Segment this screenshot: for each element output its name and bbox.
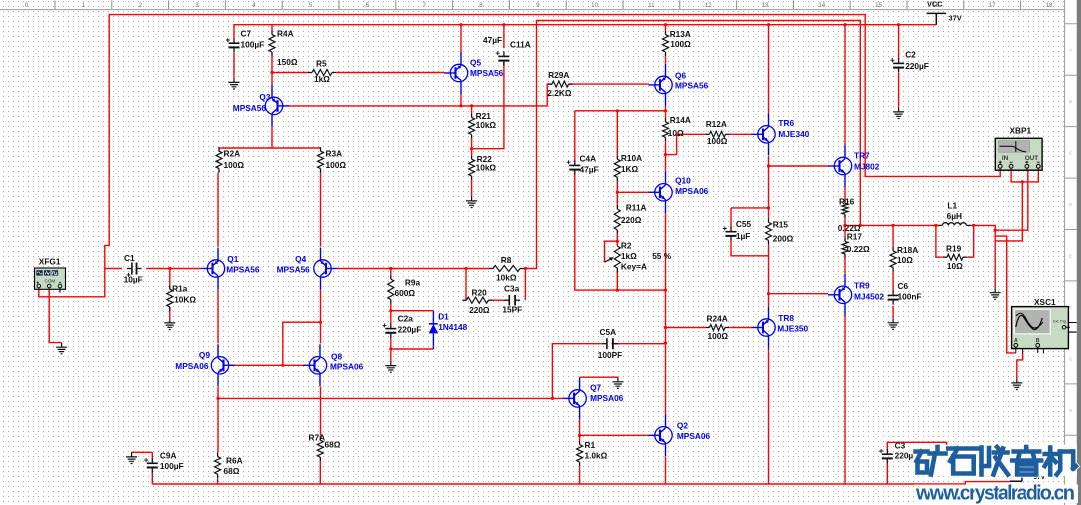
- junction C3a node: [524, 267, 527, 270]
- wire L1 right to corner to XSC1 A+: [971, 225, 1016, 353]
- svg-text:TR7: TR7: [854, 151, 870, 161]
- svg-text:100Ω: 100Ω: [670, 39, 691, 49]
- svg-text:C3a: C3a: [504, 284, 520, 294]
- svg-text:R29A: R29A: [548, 70, 569, 80]
- ground R22 ground: [466, 196, 477, 207]
- wire Q9 base to Q8 base: [233, 364, 305, 366]
- svg-text:10kΩ: 10kΩ: [476, 120, 497, 130]
- svg-text:MPSA06: MPSA06: [677, 431, 711, 441]
- wire node to TR8 collector: [768, 294, 770, 307]
- wire rail to R21 top: [471, 106, 473, 114]
- wire R2A bottom to Q1 emitter: [217, 173, 219, 247]
- junction VCC R13A: [664, 23, 667, 26]
- svg-text:B: B: [1069, 99, 1072, 104]
- svg-text:47µF: 47µF: [483, 35, 502, 45]
- ground R1a ground: [164, 318, 175, 329]
- resistor R3A: [320, 147, 322, 151]
- capacitor C4A 47uF: [569, 164, 580, 166]
- transistor Q4: [314, 248, 338, 290]
- svg-text:100µF: 100µF: [241, 40, 265, 50]
- junction TR7 base node: [767, 164, 770, 167]
- wire node to TR9 base: [769, 293, 829, 295]
- wire R7A bottom to neg rail: [319, 461, 321, 484]
- wire down to C4A top: [574, 111, 576, 161]
- transistor Q8: [303, 344, 327, 386]
- junction VCC C11A: [502, 23, 505, 26]
- svg-text:C5A: C5A: [600, 327, 617, 337]
- junction output R18A: [892, 224, 895, 227]
- svg-text:2.2KΩ: 2.2KΩ: [547, 88, 572, 98]
- wire C3 top over to VEE line: [887, 442, 946, 475]
- resistor R1a: [169, 285, 171, 289]
- svg-text:R9a: R9a: [405, 278, 421, 288]
- wire R22 bottom to ground: [471, 180, 473, 196]
- wire R1a bottom to ground: [169, 307, 171, 318]
- junction mirror base node: [281, 364, 284, 367]
- transistor TR6: [752, 113, 776, 155]
- transistor Q1: [201, 248, 225, 290]
- wire R13A bottom to Q6 collector: [665, 56, 667, 64]
- svg-text:10Ω: 10Ω: [897, 255, 913, 265]
- junction output corner node: [994, 229, 997, 232]
- resistor R16: [844, 199, 846, 203]
- svg-text:TR6: TR6: [778, 118, 794, 128]
- svg-text:H: H: [1069, 408, 1072, 413]
- svg-text:R2: R2: [621, 241, 632, 251]
- wire Q7 base node up to C5A left: [552, 344, 601, 399]
- svg-text:C55: C55: [736, 219, 752, 229]
- resistor R19: [943, 256, 947, 258]
- wire node line to C4A/R10A: [575, 110, 666, 112]
- junction output feedback tap: [859, 224, 862, 227]
- wire node to Q10 base: [617, 191, 649, 193]
- capacitor C5A 100PF: [606, 338, 608, 349]
- wire R2 bottom down: [616, 272, 618, 290]
- svg-text:1kΩ: 1kΩ: [314, 74, 330, 84]
- junction Q10 base node: [616, 191, 619, 194]
- svg-text:2: 2: [138, 2, 142, 9]
- capacitor C6 100nF: [888, 294, 899, 296]
- svg-text:C2: C2: [905, 50, 916, 60]
- svg-text:Q2: Q2: [677, 421, 688, 431]
- svg-text:C3: C3: [895, 441, 906, 451]
- svg-text:Q1: Q1: [227, 254, 238, 264]
- svg-text:100Ω: 100Ω: [707, 136, 728, 146]
- wire node to R9a top: [390, 269, 392, 276]
- instrument XBP1 bode plotter: [995, 138, 1042, 171]
- svg-text:37V: 37V: [949, 14, 962, 23]
- transistor Q7: [563, 377, 587, 419]
- junction Q7e node: [578, 434, 581, 437]
- resistor R14A: [665, 118, 667, 122]
- instrument XSC1 oscilloscope: [1012, 307, 1077, 354]
- wire XSC1 A- to ground: [1017, 353, 1023, 378]
- svg-text:Ext Trig: Ext Trig: [1053, 320, 1066, 324]
- junction C1/R1a node: [168, 267, 171, 270]
- wire Q7 emitter to node: [579, 419, 581, 435]
- svg-text:100Ω: 100Ω: [326, 160, 347, 170]
- svg-text:Q9: Q9: [199, 350, 210, 360]
- svg-text:Q7: Q7: [590, 383, 601, 393]
- svg-text:220Ω: 220Ω: [469, 305, 490, 315]
- svg-text:17: 17: [989, 2, 996, 9]
- wire R21 bottom to node to R22 top: [471, 139, 473, 156]
- junction R11A/R2 node: [616, 240, 619, 243]
- svg-text:10kΩ: 10kΩ: [476, 163, 497, 173]
- junction C2a/D1 node: [389, 347, 392, 350]
- junction R9a/D1/C2a node: [389, 309, 392, 312]
- svg-text:Q4: Q4: [295, 254, 306, 264]
- resistor R29A: [548, 83, 552, 85]
- svg-text:R4A: R4A: [277, 29, 294, 39]
- svg-text:100µF: 100µF: [160, 461, 184, 471]
- wire node to XBP1 OUT+: [995, 171, 1028, 230]
- junction VCC C2: [897, 23, 900, 26]
- junction output L1/R19: [934, 224, 937, 227]
- svg-text:IN: IN: [1002, 155, 1009, 162]
- svg-text:MJ4502: MJ4502: [854, 292, 884, 302]
- svg-text:200Ω: 200Ω: [773, 234, 794, 244]
- svg-text:R15: R15: [773, 220, 789, 230]
- svg-text:R12A: R12A: [706, 119, 727, 129]
- wire R18A bottom to C6 top: [892, 272, 894, 292]
- wire column to R24A left: [666, 327, 706, 329]
- ground XBP1 ground: [990, 288, 1001, 299]
- svg-text:12: 12: [705, 2, 712, 9]
- resistor R22: [471, 155, 473, 159]
- transistor Q10: [649, 171, 673, 213]
- watermark crystalradio logo: [914, 445, 1078, 476]
- svg-text:Q5: Q5: [470, 58, 481, 68]
- wire R19 right up to line: [967, 225, 974, 257]
- ground C7 ground: [229, 78, 240, 89]
- wire TR9 bottom to neg rail: [844, 316, 846, 485]
- svg-text:TR8: TR8: [778, 313, 794, 323]
- wire node to Q2 base: [580, 434, 649, 436]
- wire node to D1 top: [391, 310, 434, 312]
- svg-text:TR9: TR9: [854, 281, 870, 291]
- wire XBP1 IN- OUT- tie: [1011, 171, 1038, 182]
- right ruler: [1065, 0, 1077, 505]
- junction VCC TR7: [843, 23, 846, 26]
- instrument XFG1 function generator: [35, 268, 66, 289]
- resistor R17: [844, 237, 846, 241]
- wire Q2 emitter to neg rail: [665, 457, 667, 485]
- junction Q7 base node: [551, 397, 554, 400]
- wire R20 right to C3a left: [492, 299, 504, 301]
- svg-text:R6A: R6A: [226, 456, 243, 466]
- ground XFG1 COM ground: [56, 343, 67, 354]
- svg-text:10KΩ: 10KΩ: [174, 295, 196, 305]
- svg-text:100PF: 100PF: [598, 350, 622, 360]
- wire negative rail to VEE: [152, 482, 1009, 484]
- wire Q4 collector to Q8 collector: [320, 290, 322, 344]
- resistor R1: [579, 441, 581, 445]
- resistor R5: [308, 72, 312, 74]
- svg-text:C1: C1: [124, 253, 135, 263]
- wire VCC to TR6 collector: [768, 25, 770, 114]
- wire Q10 emitter down column to Q2 collector: [665, 213, 667, 414]
- svg-text:D1: D1: [438, 312, 449, 322]
- wire VCC to R13A top: [665, 25, 667, 31]
- wire C55 bottom link to R15 bottom: [731, 241, 769, 256]
- svg-text:1KΩ: 1KΩ: [621, 164, 639, 174]
- ground C6 ground: [888, 318, 899, 329]
- junction VCC Q5: [459, 23, 462, 26]
- svg-text:R13A: R13A: [670, 29, 691, 39]
- svg-text:R18A: R18A: [897, 245, 918, 255]
- svg-text:R2A: R2A: [224, 149, 241, 159]
- capacitor C7 100uF: [229, 42, 240, 44]
- junction C5A node: [664, 341, 667, 344]
- svg-text:1.0kΩ: 1.0kΩ: [585, 451, 608, 461]
- wire Q7 collector to ground: [580, 376, 618, 378]
- svg-text:C6: C6: [898, 281, 909, 291]
- wire VCC to C11A top: [503, 25, 505, 49]
- junction R2 bottom node: [616, 289, 619, 292]
- junction L1/R19 right: [972, 224, 975, 227]
- wire Q8 emitter to R7A: [320, 387, 322, 436]
- capacitor C11A 47uF: [498, 55, 509, 57]
- transistor Q6: [649, 64, 673, 106]
- svg-text:MPSA06: MPSA06: [330, 362, 364, 372]
- resistor R15: [768, 218, 770, 222]
- wire output down to R19 left: [936, 225, 943, 257]
- diode D1 1N4148: [429, 311, 439, 349]
- junction R4A/R5 node: [270, 71, 273, 74]
- svg-text:COM: COM: [45, 278, 56, 283]
- svg-text:150Ω: 150Ω: [277, 57, 298, 67]
- power VEE -37V: [1010, 475, 1022, 481]
- wire C4A bottom to bias node line: [575, 174, 666, 290]
- svg-text:Q3: Q3: [259, 92, 270, 102]
- svg-text:R17: R17: [847, 232, 863, 242]
- wire node to C55 top: [731, 207, 769, 209]
- capacitor C55 1uF: [726, 231, 737, 233]
- wire node down to R20 left: [465, 269, 467, 301]
- svg-text:L1: L1: [947, 201, 957, 211]
- wire C2a bottom to node: [390, 337, 392, 349]
- capacitor C3 220uF: [882, 453, 893, 455]
- svg-text:C4A: C4A: [580, 154, 597, 164]
- svg-text:Key=A: Key=A: [621, 262, 647, 272]
- svg-text:R1: R1: [585, 440, 596, 450]
- svg-text:R8: R8: [501, 255, 512, 265]
- wire VCC to Q5 top: [460, 25, 462, 52]
- svg-text:55 %: 55 %: [652, 251, 672, 261]
- wire C1 right to Q1 base: [146, 268, 201, 270]
- wire node to R10A top: [616, 111, 618, 155]
- svg-text:Q6: Q6: [675, 71, 686, 81]
- svg-text:100Ω: 100Ω: [224, 160, 245, 170]
- capacitor C2 220uF: [893, 62, 904, 64]
- transistor TR8: [752, 307, 776, 349]
- junction R21/R22 node: [470, 147, 473, 150]
- resistor R10A: [616, 155, 618, 159]
- wire R24A right to TR8 base: [729, 327, 752, 329]
- junction Q4/Q8 tie node: [319, 321, 322, 324]
- wire R3A bottom to Q4 emitter: [320, 173, 322, 247]
- svg-text:11: 11: [648, 2, 655, 9]
- svg-text:VCC: VCC: [927, 0, 943, 9]
- wire C7 bottom to ground: [233, 53, 235, 78]
- wire XFG1 COM to ground: [49, 288, 61, 342]
- svg-text:MPSA56: MPSA56: [233, 103, 267, 113]
- svg-text:0: 0: [25, 2, 29, 9]
- ground XSC1 A- ground: [1011, 378, 1022, 389]
- wire node down to ground: [994, 236, 996, 288]
- wire output to R18A top: [892, 225, 894, 246]
- wire R5 right to Q5 base: [336, 72, 444, 74]
- svg-text:G: G: [1069, 356, 1073, 361]
- svg-text:MJE340: MJE340: [778, 129, 809, 139]
- svg-text:10Ω: 10Ω: [947, 261, 963, 271]
- svg-text:0.22Ω: 0.22Ω: [847, 244, 870, 254]
- ground C2 ground: [893, 107, 904, 118]
- wire tail rail R2A-R3A: [219, 147, 321, 149]
- wire R11A bottom to R2 top: [616, 234, 618, 246]
- wire C9A bottom to neg rail: [151, 472, 153, 484]
- resistor R2A: [218, 147, 220, 151]
- svg-text:R24A: R24A: [707, 314, 728, 324]
- wire C3a right up to node: [524, 269, 526, 301]
- wire Q5 emitter down to rail: [460, 94, 462, 106]
- junction XBP1 gnd node: [1021, 180, 1024, 183]
- resistor R11A: [616, 205, 618, 209]
- svg-text:MPSA56: MPSA56: [470, 68, 504, 78]
- resistor R6A: [217, 453, 219, 457]
- junction rail R21: [470, 104, 473, 107]
- wire node to R5 left: [272, 72, 308, 74]
- svg-text:R7A: R7A: [309, 433, 326, 443]
- svg-text:MPSA06: MPSA06: [175, 361, 209, 371]
- svg-text:8: 8: [479, 2, 483, 9]
- wire R10A bottom to node to R11A top: [616, 181, 618, 205]
- wire node to R1 top: [579, 435, 581, 440]
- svg-text:220µF: 220µF: [905, 61, 929, 71]
- wire R14A bottom to node to Q10 collector: [665, 141, 667, 171]
- wire node to D1 bottom: [391, 348, 434, 350]
- svg-text:C11A: C11A: [510, 40, 531, 50]
- svg-text:XFG1: XFG1: [39, 257, 61, 267]
- wire R15 bottom to TR8 collector node: [768, 244, 770, 293]
- junction bias column node: [664, 289, 667, 292]
- svg-text:15PF: 15PF: [502, 305, 522, 315]
- resistor R9a: [390, 275, 392, 279]
- svg-text:18: 18: [1046, 2, 1053, 9]
- capacitor C9A 100uF: [147, 462, 158, 464]
- wire C3 bottom to neg rail: [886, 463, 888, 484]
- resistor R21: [471, 114, 473, 118]
- wire TR7 emitter to R16: [844, 187, 846, 199]
- inductor L1 6uH: [942, 223, 966, 226]
- wire output node line: [845, 224, 938, 226]
- svg-text:1: 1: [82, 2, 86, 9]
- wire rail to Q7 base: [218, 397, 563, 399]
- capacitor C2a 220uF: [385, 328, 396, 330]
- svg-text:XBP1: XBP1: [1010, 126, 1032, 136]
- ground Q7 ground: [612, 377, 623, 388]
- svg-text:47µF: 47µF: [580, 164, 599, 174]
- svg-text:9: 9: [536, 2, 540, 9]
- wire Q3 base rail to R29A: [289, 84, 552, 106]
- wire XBP1 grounds down: [995, 182, 1022, 241]
- resistor R13A: [665, 31, 667, 35]
- svg-text:15: 15: [875, 2, 882, 9]
- svg-text:R1a: R1a: [172, 284, 188, 294]
- svg-text:600Ω: 600Ω: [395, 288, 416, 298]
- svg-text:R14A: R14A: [670, 115, 691, 125]
- svg-text:C7: C7: [241, 29, 252, 39]
- svg-text:68Ω: 68Ω: [325, 440, 341, 450]
- resistor R4A: [271, 31, 273, 35]
- top ruler: [0, 1, 1065, 10]
- wire XFG1 minus stub: [59, 288, 61, 292]
- wire node to R12A left: [666, 134, 706, 154]
- transistor TR7: [828, 145, 852, 187]
- junction R14A/R12A node: [664, 153, 667, 156]
- svg-text:6: 6: [366, 2, 370, 9]
- capacitor C3a 15PF: [508, 295, 510, 306]
- svg-text:MPSA06: MPSA06: [675, 186, 709, 196]
- svg-text:6µH: 6µH: [947, 211, 962, 221]
- svg-text:220Ω: 220Ω: [621, 215, 642, 225]
- svg-text:14: 14: [818, 2, 825, 9]
- wire input signal XFG1 to border loop to XBP1 IN+: [39, 15, 1000, 297]
- junction output R16/R17: [843, 224, 846, 227]
- wire VCC to TR7 collector: [844, 25, 846, 145]
- resistor R24A: [706, 327, 710, 329]
- wire Q1 collector to Q9 collector: [217, 290, 219, 344]
- junction VCC TR6: [767, 23, 770, 26]
- wire R6A bottom to neg rail: [217, 478, 219, 484]
- transistor Q3: [265, 85, 289, 127]
- wire node to TR7 base: [769, 165, 829, 167]
- svg-text:68Ω: 68Ω: [224, 466, 240, 476]
- wire R16 bottom to node to R17 top: [844, 218, 846, 237]
- wire ground to C9A top: [132, 451, 153, 453]
- svg-text:MPSA06: MPSA06: [590, 393, 624, 403]
- svg-text:MPSA56: MPSA56: [277, 265, 311, 275]
- svg-text:1N4148: 1N4148: [438, 322, 467, 332]
- transistor Q2: [649, 414, 673, 456]
- potentiometer R2 1k Key=A: [614, 246, 620, 268]
- wire R2 wiper tie: [605, 241, 618, 262]
- transistor TR9: [828, 274, 852, 316]
- ground C2a ground: [385, 361, 396, 372]
- wire Q4 base line to R8: [338, 268, 490, 270]
- svg-text:10µF: 10µF: [124, 275, 143, 285]
- junction rail Q5e: [459, 104, 462, 107]
- wire C9A top lead: [151, 452, 153, 458]
- wire TR6 emitter down to R15: [768, 156, 770, 219]
- wire node to C2a top: [390, 311, 392, 324]
- resistor R12A: [706, 133, 710, 135]
- svg-text:1µF: 1µF: [736, 231, 750, 241]
- wire down to C55: [730, 208, 732, 228]
- wire Q6 emitter to node to R14A: [665, 106, 667, 118]
- svg-text:4: 4: [252, 2, 256, 9]
- wire C2 bottom to ground: [898, 73, 900, 107]
- resistor R20: [462, 299, 466, 301]
- wire R29A right to Q6 base: [569, 83, 649, 85]
- svg-text:www.crystalradio.cn: www.crystalradio.cn: [915, 483, 1075, 505]
- wire Q9 emitter to R6A: [217, 387, 219, 453]
- wire R9a bottom to node: [390, 303, 392, 310]
- svg-text:Q10: Q10: [675, 176, 691, 186]
- junction R9a node: [389, 267, 392, 270]
- svg-text:10Ω: 10Ω: [668, 128, 684, 138]
